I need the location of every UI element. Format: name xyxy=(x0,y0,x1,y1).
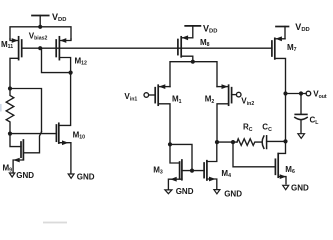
wire node Y to M9 drain (with hop over M10 gate line) xyxy=(10,89,42,132)
transistor M7 (PMOS output) xyxy=(272,36,286,93)
svg-text:GND: GND xyxy=(77,173,95,182)
junction tail node xyxy=(191,60,195,64)
power symbol VDD (bias section) xyxy=(32,16,49,27)
junction CC output node xyxy=(283,139,287,143)
svg-text:M3: M3 xyxy=(153,166,163,176)
junction M12 drain node xyxy=(69,71,73,75)
svg-text:M7: M7 xyxy=(287,43,297,53)
transistor M6 (NMOS output driver) xyxy=(275,141,286,184)
svg-text:CL: CL xyxy=(310,116,320,126)
junction node Y xyxy=(8,86,12,90)
svg-text:VDD: VDD xyxy=(203,23,217,34)
cropped faint caption fragment (bottom) xyxy=(43,222,67,224)
ground (CL) xyxy=(298,134,305,139)
transistor M12 (PMOS, diode-connected) xyxy=(56,37,71,73)
svg-text:M4: M4 xyxy=(221,169,231,179)
svg-text:GND: GND xyxy=(291,183,309,192)
capacitor CL xyxy=(295,94,307,134)
transistor M11 (PMOS) xyxy=(10,37,22,89)
transistor M9 (NMOS) xyxy=(13,140,23,173)
transistor M1 (PMOS input) xyxy=(149,84,170,144)
svg-text:M9: M9 xyxy=(3,164,13,174)
ground (M9) xyxy=(9,173,14,177)
svg-text:M1: M1 xyxy=(172,95,182,105)
svg-text:VDD: VDD xyxy=(295,22,309,33)
resistor RC xyxy=(237,139,261,146)
svg-text:RC: RC xyxy=(243,123,253,133)
ground (M4) xyxy=(214,190,220,194)
svg-text:GND: GND xyxy=(224,189,242,198)
junction node X xyxy=(8,132,12,136)
svg-text:Vout: Vout xyxy=(313,90,327,100)
wire tail rail xyxy=(170,62,217,87)
svg-text:M12: M12 xyxy=(75,56,88,66)
ground (M10) xyxy=(68,174,74,178)
wire node A to M3 gate xyxy=(170,144,180,163)
node B / first stage output wire xyxy=(217,141,237,143)
svg-text:GND: GND xyxy=(176,187,194,196)
svg-text:CC: CC xyxy=(262,123,272,133)
ground (M3) xyxy=(165,190,172,194)
transistor M2 (PMOS input, mirrored) xyxy=(217,84,236,142)
wire M3 drain / mirror gate line xyxy=(182,170,204,172)
terminal Vin1 xyxy=(144,93,149,98)
svg-text:Vbias2: Vbias2 xyxy=(29,31,48,41)
wire node B to M6 gate xyxy=(233,142,275,167)
junction output node xyxy=(283,91,287,95)
ground (M6) xyxy=(283,185,289,189)
transistor M3 (NMOS, diode-connected) xyxy=(168,160,182,190)
junction mirror gate node xyxy=(190,169,194,173)
svg-text:Vin2: Vin2 xyxy=(241,97,254,107)
cropped faint label fragment (left edge) xyxy=(0,104,2,112)
svg-text:GND: GND xyxy=(16,171,34,180)
net Vbias2 gate line (runs to M7) xyxy=(22,47,272,49)
terminal Vout xyxy=(306,91,311,96)
node A (M1 drain) xyxy=(168,142,172,146)
wire node X to M9 gate xyxy=(10,134,21,147)
svg-text:M8: M8 xyxy=(200,38,210,48)
wire M12 drain to Vbias2 (diode connection) xyxy=(42,48,71,72)
transistor M4 (NMOS mirror) xyxy=(204,142,217,189)
capacitor CC xyxy=(262,136,285,149)
wire VDD rail (bias) xyxy=(10,27,71,39)
transistor M10 (NMOS) xyxy=(56,73,71,174)
svg-text:VDD: VDD xyxy=(52,12,66,23)
svg-text:M6: M6 xyxy=(285,165,295,175)
power symbol VDD (output) xyxy=(276,27,289,39)
svg-text:M2: M2 xyxy=(205,95,215,105)
svg-text:M11: M11 xyxy=(1,40,13,50)
wire node A to M3 drain xyxy=(170,144,192,170)
svg-text:M10: M10 xyxy=(73,131,86,141)
svg-text:Vin1: Vin1 xyxy=(124,92,137,102)
power symbol VDD (tail) xyxy=(185,26,200,38)
wire node X to M10 gate xyxy=(10,133,56,135)
junction CL branch xyxy=(299,91,303,95)
transistor M8 (PMOS tail source) xyxy=(178,35,193,61)
junction node B xyxy=(215,140,219,144)
junction VDD1 stem xyxy=(38,25,42,29)
wire output node to Vout xyxy=(286,93,307,95)
terminal Vin2 xyxy=(236,92,241,97)
junction M6 gate branch xyxy=(231,140,235,144)
wire output node down to M6 xyxy=(285,94,287,142)
resistor R (bias) xyxy=(6,89,14,134)
junction Vbias2 node xyxy=(38,46,42,50)
